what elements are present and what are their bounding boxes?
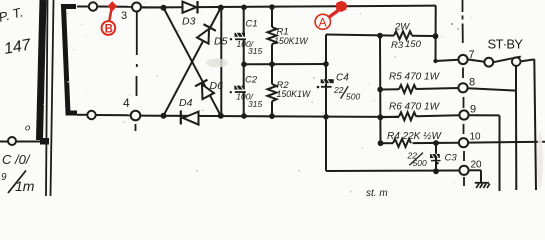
node R3 right bbox=[433, 33, 439, 39]
svg-text:D4: D4 bbox=[179, 97, 193, 109]
pin7 column bbox=[435, 6, 437, 61]
diode D3 bbox=[182, 1, 198, 28]
node bottom-left bridge bbox=[161, 113, 167, 119]
switch wire from pin7 bbox=[468, 59, 485, 61]
terminal circle top-left bbox=[89, 2, 97, 10]
wire top rail left bbox=[141, 6, 161, 8]
red marker B flag bbox=[107, 1, 117, 11]
svg-text:C /0/: C /0/ bbox=[2, 152, 31, 167]
red circled B bbox=[102, 21, 116, 35]
bottom rail bbox=[164, 116, 400, 117]
svg-text:R3: R3 bbox=[391, 40, 404, 51]
node pin7 bbox=[433, 59, 437, 63]
resistor R1 bbox=[268, 7, 309, 64]
R3 rail bbox=[326, 35, 394, 36]
diode D5 bbox=[197, 24, 216, 44]
pin circle 9 bbox=[459, 110, 468, 119]
svg-text:8: 8 bbox=[469, 77, 475, 89]
wire bottom connector bbox=[96, 114, 131, 116]
switch blade bbox=[493, 57, 521, 63]
svg-text:R5 470 1W: R5 470 1W bbox=[389, 72, 441, 83]
node mid R1R2 bbox=[269, 61, 275, 67]
node R2 bottom bbox=[269, 113, 275, 119]
svg-text:1m: 1m bbox=[15, 178, 35, 194]
resistor R4 bbox=[378, 131, 459, 147]
svg-text:C4: C4 bbox=[336, 73, 349, 84]
wire primary to terminal o bbox=[0, 141, 40, 143]
node C3 bottom bbox=[433, 168, 439, 174]
wire diagonal TL-BR bbox=[164, 8, 221, 116]
svg-text:ST·BY: ST·BY bbox=[488, 37, 524, 52]
svg-text:R6 470 1W: R6 470 1W bbox=[389, 102, 441, 113]
svg-text:o: o bbox=[25, 123, 30, 134]
svg-text:22: 22 bbox=[333, 85, 344, 95]
svg-text:315: 315 bbox=[248, 99, 262, 109]
paper speckles bbox=[17, 2, 475, 192]
wire secondary top bbox=[77, 6, 89, 8]
wire bridge right side bbox=[220, 8, 222, 116]
svg-text:st. m: st. m bbox=[366, 188, 388, 196]
svg-text:D3: D3 bbox=[182, 16, 196, 28]
terminal o circle bbox=[8, 137, 16, 145]
speck noise bbox=[451, 23, 453, 25]
resistor R2 bbox=[268, 64, 311, 116]
svg-text:150K1W: 150K1W bbox=[277, 89, 311, 99]
resistor R3 bbox=[391, 22, 433, 52]
terminal circle 3 bbox=[132, 3, 141, 12]
node C3 top bbox=[433, 140, 439, 146]
transformer primary bar bbox=[40, 0, 44, 140]
pin circle 7 bbox=[458, 55, 467, 64]
svg-text:C1: C1 bbox=[246, 19, 258, 30]
svg-text:150: 150 bbox=[405, 39, 422, 50]
capacitor C3 bbox=[407, 143, 458, 172]
bottom return rail bbox=[326, 170, 459, 173]
wire switch to pin8 bbox=[515, 66, 517, 91]
node mid C1C2 bbox=[241, 62, 247, 68]
red circled A bbox=[315, 14, 330, 29]
core line 2 bbox=[51, 0, 54, 196]
node R3 left bbox=[377, 33, 383, 39]
wire switch right branch bbox=[521, 59, 535, 61]
wire pin20 to ground bbox=[469, 169, 481, 171]
svg-text:10: 10 bbox=[470, 132, 482, 143]
svg-text:9: 9 bbox=[1, 172, 7, 183]
middle rail bbox=[244, 63, 326, 65]
switch throw circle bbox=[512, 57, 521, 66]
resistor R5 bbox=[377, 72, 458, 94]
top rail bbox=[141, 6, 436, 8]
node mid rail right bbox=[323, 61, 329, 67]
svg-text:4: 4 bbox=[123, 96, 130, 110]
svg-text:C3: C3 bbox=[445, 153, 458, 164]
svg-text:D6: D6 bbox=[210, 80, 224, 92]
capacitor C2 bbox=[230, 64, 263, 116]
capacitor C4 bbox=[317, 73, 361, 102]
connector dash line bbox=[463, 0, 465, 186]
wire top connector bbox=[97, 6, 132, 8]
pin circle 8 bbox=[458, 83, 467, 92]
svg-text:500: 500 bbox=[413, 158, 427, 168]
secondary winding bracket bbox=[64, 7, 78, 114]
svg-text:3: 3 bbox=[121, 10, 127, 22]
diode D6 bbox=[195, 80, 214, 100]
node C4 bottom rail bbox=[323, 114, 329, 120]
diode D4 bbox=[179, 97, 199, 125]
svg-text:315: 315 bbox=[248, 46, 262, 56]
scan smudge bbox=[206, 59, 228, 68]
pin circle 10 bbox=[459, 138, 468, 147]
svg-text:B: B bbox=[105, 24, 113, 36]
svg-text:20: 20 bbox=[471, 160, 483, 171]
node top-right bridge bbox=[218, 5, 224, 11]
node top-left bridge bbox=[161, 5, 167, 11]
wire pin10 right branch bbox=[468, 141, 545, 144]
left bleeder rail bbox=[379, 36, 382, 144]
svg-text:R4 22K ½W: R4 22K ½W bbox=[387, 131, 442, 142]
ground bbox=[475, 183, 490, 188]
wire diagonal TR-BL bbox=[164, 8, 221, 116]
capacitor C1 bbox=[230, 9, 263, 63]
node R1 top bbox=[269, 4, 275, 10]
wire secondary bottom bbox=[77, 114, 87, 116]
C4 column from R3 rail bbox=[325, 35, 327, 172]
node C2 bottom bbox=[241, 113, 247, 119]
wire switch column down bbox=[515, 91, 517, 190]
svg-text:C2: C2 bbox=[245, 75, 258, 86]
svg-text:500: 500 bbox=[346, 92, 360, 102]
pin circle 20 bbox=[459, 166, 468, 175]
resistor R6 bbox=[377, 102, 459, 121]
wire to pin 7 bbox=[436, 60, 459, 61]
svg-text:150K1W: 150K1W bbox=[274, 36, 308, 46]
core line 1 bbox=[46, 0, 48, 196]
svg-text:A: A bbox=[319, 15, 327, 29]
node C1 top bbox=[241, 5, 247, 11]
node bottom-right bridge bbox=[218, 113, 224, 119]
wire pin9 right branch bbox=[469, 114, 500, 116]
red marker A flag bbox=[335, 1, 347, 12]
terminal circle bottom-left bbox=[87, 111, 95, 119]
dash-dot line between terminals 3 and 4 bbox=[136, 12, 138, 56]
svg-text:2W: 2W bbox=[394, 22, 410, 33]
terminal circle 4 bbox=[131, 111, 141, 121]
wire bottom rail left bbox=[140, 115, 161, 117]
switch pole circle bbox=[484, 58, 493, 67]
svg-text:D5: D5 bbox=[214, 36, 228, 48]
svg-text:9: 9 bbox=[470, 104, 476, 116]
